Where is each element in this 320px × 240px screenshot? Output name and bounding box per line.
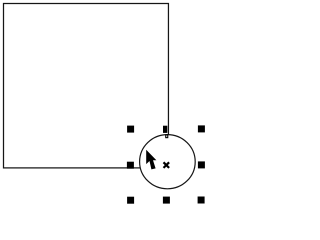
pick tool arrow cursor [146, 150, 156, 170]
selection handle top-right [198, 125, 205, 132]
selection handle top-middle [163, 126, 167, 133]
selection handle bottom-middle [163, 197, 170, 204]
selection handle middle-right [198, 161, 205, 168]
ellipse node square at top of circle [166, 135, 168, 138]
selection handle bottom-right [198, 197, 205, 204]
center X marker of selection [164, 162, 170, 168]
ellipse (selected object, white fill covers rectangle corner) [140, 135, 196, 189]
rectangle outline [4, 4, 169, 168]
selection handle bottom-left [127, 197, 134, 204]
selection handle middle-left [127, 162, 134, 169]
selection handle top-left [127, 126, 134, 133]
